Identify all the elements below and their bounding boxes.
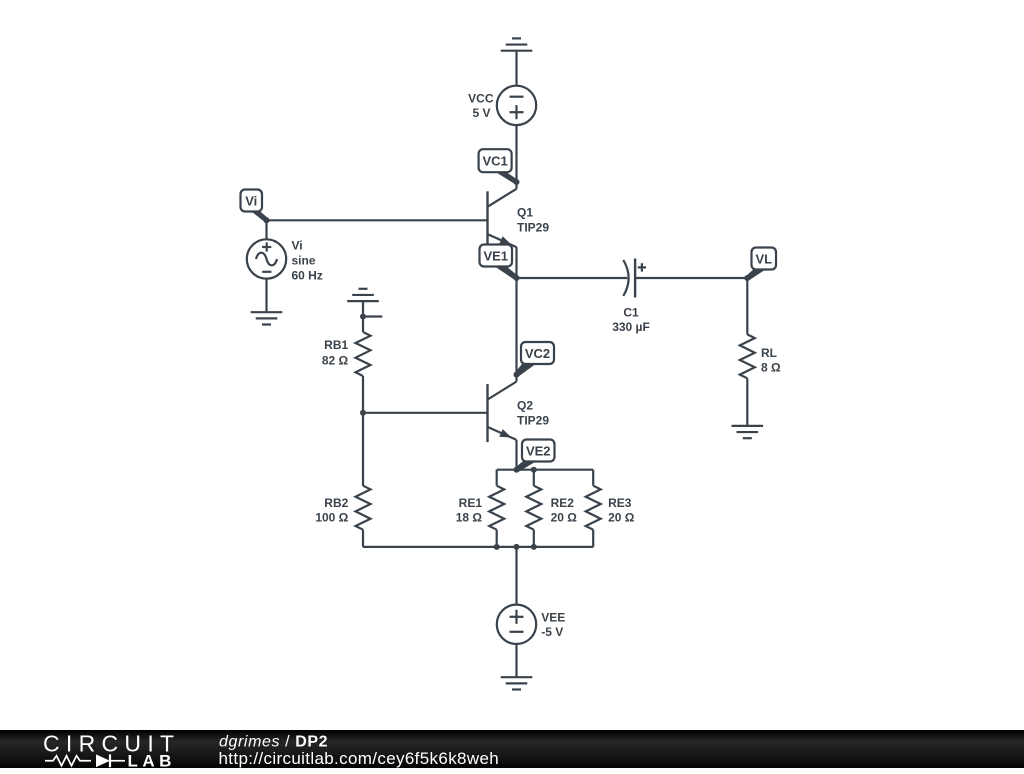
ground (top rail above VCC) bbox=[501, 38, 533, 50]
voltage source VCC 5 V bbox=[468, 86, 536, 125]
wire bbox=[362, 376, 364, 413]
svg-text:-5 V: -5 V bbox=[541, 625, 563, 639]
svg-text:60 Hz: 60 Hz bbox=[292, 269, 323, 283]
svg-text:http://circuitlab.com/cey6f5k6: http://circuitlab.com/cey6f5k6k8weh bbox=[219, 748, 500, 767]
wire bbox=[267, 219, 488, 221]
node VE1 junction bbox=[514, 275, 520, 281]
node flag VE1 bbox=[480, 245, 519, 281]
svg-text:VE2: VE2 bbox=[526, 443, 551, 458]
node VC1 junction bbox=[514, 179, 520, 185]
voltage source VEE -5 V bbox=[497, 605, 566, 644]
node flag VL bbox=[746, 248, 777, 281]
svg-text:C1: C1 bbox=[623, 305, 639, 319]
capacitor C1 330 uF bbox=[612, 259, 650, 335]
svg-text:Vi: Vi bbox=[245, 193, 257, 208]
footer url bbox=[219, 748, 500, 767]
svg-text:VC1: VC1 bbox=[482, 154, 507, 169]
svg-text:RE1: RE1 bbox=[459, 496, 483, 510]
svg-text:LAB: LAB bbox=[128, 751, 176, 769]
node flag VE2 bbox=[514, 440, 554, 473]
svg-text:TIP29: TIP29 bbox=[517, 221, 549, 235]
node VE2 junction bbox=[514, 467, 520, 473]
resistor RE2 20 ohm bbox=[526, 486, 577, 530]
node flag VC1 bbox=[479, 149, 519, 184]
transistor Q1 TIP29 bbox=[488, 182, 550, 249]
svg-text:dgrimes / DP2: dgrimes / DP2 bbox=[219, 733, 328, 750]
wire bbox=[592, 530, 594, 547]
wire bbox=[746, 278, 748, 334]
CircuitLab logo resistor-diode art bbox=[45, 754, 125, 767]
ground (below Vi) bbox=[251, 312, 283, 324]
transistor Q2 TIP29 bbox=[488, 375, 550, 442]
svg-text:Q1: Q1 bbox=[517, 206, 533, 220]
wire stub bbox=[363, 315, 382, 317]
svg-text:100 Ω: 100 Ω bbox=[315, 511, 348, 525]
wire bbox=[515, 278, 517, 375]
wire bbox=[265, 220, 267, 239]
wire bbox=[362, 301, 364, 316]
wire (bottom rail) bbox=[363, 546, 593, 548]
wire bbox=[515, 547, 517, 605]
svg-text:RE3: RE3 bbox=[608, 496, 632, 510]
wire bbox=[517, 277, 628, 279]
svg-text:Vi: Vi bbox=[292, 239, 303, 253]
wire bbox=[265, 279, 267, 313]
resistor RE3 20 ohm bbox=[586, 486, 635, 530]
wire bbox=[746, 378, 748, 426]
svg-text:VL: VL bbox=[755, 251, 772, 266]
node junction RE1 bottom bbox=[494, 544, 500, 550]
svg-text:VEE: VEE bbox=[541, 611, 565, 625]
ground (below VEE) bbox=[501, 677, 533, 689]
svg-text:8 Ω: 8 Ω bbox=[761, 361, 781, 375]
svg-text:RL: RL bbox=[761, 346, 777, 360]
svg-text:20 Ω: 20 Ω bbox=[608, 511, 635, 525]
node junction at RB1 top bbox=[360, 314, 366, 320]
ground (below RL) bbox=[732, 426, 764, 438]
svg-text:RB1: RB1 bbox=[324, 338, 348, 352]
node VC2 junction bbox=[514, 372, 520, 378]
svg-text:sine: sine bbox=[292, 254, 316, 268]
CircuitLab logo wordmark LAB bbox=[128, 751, 176, 770]
wire bbox=[533, 530, 535, 547]
svg-text:330 µF: 330 µF bbox=[612, 320, 650, 334]
voltage source Vi sine 60 Hz bbox=[247, 239, 323, 283]
svg-text:RB2: RB2 bbox=[324, 496, 348, 510]
resistor RL 8 ohm bbox=[740, 334, 781, 378]
wire bbox=[515, 440, 517, 470]
svg-text:VE1: VE1 bbox=[483, 248, 508, 263]
svg-text:RE2: RE2 bbox=[551, 496, 575, 510]
wire bbox=[496, 470, 498, 486]
wire bbox=[496, 530, 498, 547]
wire bbox=[515, 125, 517, 182]
svg-text:18 Ω: 18 Ω bbox=[456, 511, 483, 525]
node junction VEE feed bbox=[514, 544, 520, 550]
node junction RE2 bottom bbox=[531, 544, 537, 550]
wire bbox=[533, 470, 535, 486]
svg-text:20 Ω: 20 Ω bbox=[551, 511, 578, 525]
footer title dgrimes / DP2 bbox=[219, 733, 328, 750]
node flag VC2 bbox=[514, 342, 554, 377]
wire bbox=[362, 413, 364, 486]
node Vi junction bbox=[264, 217, 270, 223]
wire bbox=[362, 317, 364, 333]
node flag Vi bbox=[241, 190, 269, 223]
svg-text:TIP29: TIP29 bbox=[517, 414, 549, 428]
wire bbox=[515, 247, 517, 278]
node VL junction bbox=[744, 275, 750, 281]
svg-text:5 V: 5 V bbox=[472, 106, 490, 120]
node junction RE2 top bbox=[531, 467, 537, 473]
wire bbox=[362, 530, 364, 547]
resistor RB1 82 ohm bbox=[322, 332, 371, 376]
resistor RE1 18 ohm bbox=[456, 486, 505, 530]
svg-text:82 Ω: 82 Ω bbox=[322, 354, 349, 368]
resistor RB2 100 ohm bbox=[315, 486, 370, 530]
ground (above RB1) bbox=[347, 289, 379, 301]
svg-text:Q2: Q2 bbox=[517, 399, 533, 413]
svg-text:VC2: VC2 bbox=[525, 346, 550, 361]
CircuitLab logo wordmark CIRCUIT bbox=[43, 730, 180, 756]
wire bbox=[497, 469, 594, 471]
node junction at Q2 base bbox=[360, 410, 366, 416]
wire bbox=[515, 51, 517, 86]
wire bbox=[515, 644, 517, 677]
wire bbox=[363, 412, 488, 414]
wire bbox=[635, 277, 747, 279]
wire bbox=[592, 470, 594, 486]
svg-text:VCC: VCC bbox=[468, 92, 494, 106]
